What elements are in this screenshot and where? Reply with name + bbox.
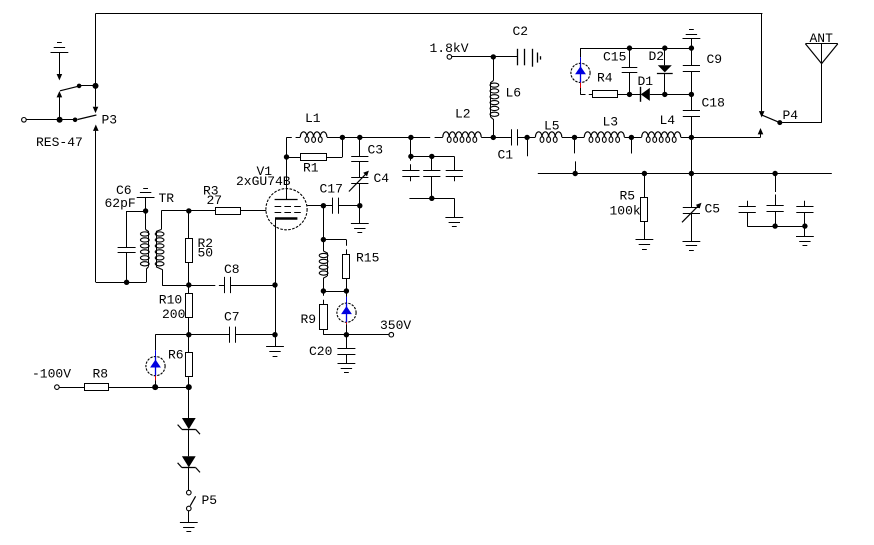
tube V1 anode (286, 157, 288, 200)
switch P4 upper contact arrow (759, 111, 765, 117)
svg-text:ANT: ANT (810, 31, 834, 46)
ground (input relay, inverted) (51, 43, 69, 53)
capacitor output shunt A (747, 201, 749, 207)
wire HV top rail (580, 48, 691, 50)
wire to C2 (493, 56, 517, 58)
inductor screen choke (323, 240, 325, 251)
resistor R8 (85, 384, 109, 391)
resistor R6 (188, 335, 190, 353)
node R4/C15/D1 junction (627, 92, 632, 97)
node P4 pivot (777, 120, 782, 125)
svg-text:C15: C15 (603, 49, 626, 64)
node L3/L4 junction (629, 135, 634, 140)
svg-text:L2: L2 (455, 106, 471, 121)
svg-text:RES-47: RES-47 (36, 135, 83, 150)
capacitor C5 (variable) (691, 174, 693, 208)
wire to R3 (189, 210, 216, 212)
wire secondary bottom rail (162, 285, 189, 287)
svg-text:R8: R8 (93, 366, 109, 381)
node C6 bottom (124, 280, 129, 285)
node R10 bottom (186, 332, 191, 337)
wire mid-caps top rail (411, 156, 454, 158)
svg-text:P4: P4 (783, 108, 799, 123)
terminal 350V (389, 332, 394, 337)
meter PA1 (grid current) (155, 335, 157, 351)
node P3 pole-1 pivot (77, 84, 82, 89)
svg-text:P5: P5 (202, 493, 218, 508)
capacitor C8 (224, 277, 226, 293)
inductor L2 (443, 132, 481, 137)
node right caps tap (772, 171, 777, 176)
capacitor C7 (229, 327, 231, 343)
node mid caps tap (408, 135, 413, 140)
capacitor output shunt B (775, 195, 777, 206)
wire output to P4 (691, 137, 760, 139)
capacitor output shunt C (804, 201, 806, 207)
node TR primary top (143, 208, 148, 213)
wire meter to R4 (580, 94, 585, 96)
transformer TR primary (145, 211, 147, 230)
terminal RF input (22, 118, 27, 123)
wire bypass loop left (95, 14, 97, 86)
capacitor mid shunt 1 (410, 156, 412, 160)
svg-text:2xGU74B: 2xGU74B (236, 174, 291, 189)
ground (R5) (644, 222, 646, 240)
node L1/R1 right (340, 135, 345, 140)
svg-text:TR: TR (159, 191, 175, 206)
capacitor C20 (346, 335, 348, 349)
ground (above TR, inverted) (137, 189, 155, 198)
inductor L6 (HV choke) (493, 57, 495, 81)
resistor R10 (188, 285, 190, 293)
resistor R4 (593, 91, 618, 98)
node mid-caps left (408, 154, 413, 159)
wire bias to zeners (188, 387, 190, 418)
capacitor C9 (691, 48, 693, 65)
svg-text:R5: R5 (620, 188, 636, 203)
wire to 350V terminal (346, 334, 389, 336)
wire screen down (323, 206, 325, 240)
wire to C7 (189, 334, 229, 336)
node L4 output junction (689, 135, 694, 140)
wire L4 junction down through bus (691, 137, 693, 173)
svg-text:C20: C20 (309, 344, 332, 359)
inductor L4 (631, 137, 641, 139)
svg-text:R15: R15 (356, 250, 379, 265)
node choke top (321, 237, 326, 242)
zener diode VD1 (182, 418, 196, 429)
resistor R5 (644, 174, 646, 198)
node P3 pole-2 pivot (73, 118, 78, 123)
node mid-caps bottom tap (429, 196, 434, 201)
transformer TR secondary (161, 211, 163, 230)
node anode junction (284, 154, 289, 159)
inductor L1 (287, 137, 292, 139)
wire ground to contact (59, 52, 61, 74)
ground (C5) (691, 213, 693, 241)
node C1/L5 junction (524, 135, 529, 140)
wire pivot to bypass line (79, 85, 95, 87)
wire ground-side bus (538, 173, 832, 175)
capacitor C3 (359, 137, 361, 156)
node choke bottom (321, 288, 326, 293)
node meter bottom (152, 384, 158, 390)
wire C8 to cathode (231, 285, 275, 287)
wire cathode lead (275, 219, 277, 285)
capacitor mid shunt 2 (431, 156, 433, 170)
wire bypass down to pole-2 contact (95, 86, 97, 107)
wire meter branch (155, 334, 189, 336)
svg-text:D2: D2 (649, 49, 665, 64)
ground (C20) (346, 354, 348, 364)
wire rail to C8 (189, 285, 216, 287)
svg-text:R4: R4 (597, 70, 613, 85)
wire 1.8kV to C2 node (452, 56, 494, 58)
wire screen to C17 (307, 205, 323, 207)
wire bypass loop right down to P4 (761, 14, 763, 112)
switch P4 lower contact arrow (758, 128, 764, 134)
switch P5 lower contact (187, 506, 192, 511)
svg-text:C1: C1 (498, 147, 514, 162)
capacitor C4 (variable) (359, 162, 361, 178)
wire stub to bus (575, 161, 577, 173)
terminal 1.8kV (447, 55, 452, 60)
wire terminal to R8 (59, 387, 84, 389)
svg-text:1.8kV: 1.8kV (430, 41, 469, 56)
meter PA3 (anode current) (580, 48, 582, 57)
node C7 ground junction (272, 332, 277, 337)
wire rail to L2 (411, 137, 430, 139)
node R15 bottom (344, 288, 349, 293)
wire stub below L5 junction (574, 137, 576, 153)
svg-text:200: 200 (162, 307, 185, 322)
node C15 top (627, 45, 632, 50)
wire ground stem to TR node (145, 197, 147, 211)
wire P4 to antenna (782, 122, 822, 124)
node R2 bottom (186, 282, 191, 287)
node C4 bottom (357, 203, 362, 208)
wire secondary top to R2 node (161, 210, 189, 212)
node C9 top (689, 45, 694, 50)
wire to D1 (617, 94, 630, 96)
capacitor mid shunt 3 (454, 156, 456, 170)
wire between zeners (188, 429, 190, 456)
node D2 top (662, 45, 667, 50)
wire mid-caps stub (410, 137, 412, 156)
diode D2 (664, 48, 666, 65)
ground (above C9, inverted) (683, 30, 701, 39)
svg-text:R10: R10 (159, 292, 182, 307)
svg-text:L4: L4 (660, 113, 676, 128)
tube V1 control grid (275, 212, 301, 214)
wire D-junction to C9 line (665, 94, 692, 96)
wire zener to switch P5 (188, 468, 190, 491)
node D1/D2 junction (662, 92, 667, 97)
capacitor C1 (493, 137, 511, 139)
svg-text:C7: C7 (224, 310, 240, 325)
switch P5 blade (190, 496, 195, 506)
resistor R2 (188, 211, 190, 239)
svg-text:R9: R9 (301, 312, 317, 327)
svg-text:50: 50 (198, 246, 214, 261)
svg-text:R6: R6 (168, 347, 184, 362)
node C9 bottom / C18 top (689, 92, 694, 97)
wire choke-R15 join (323, 291, 346, 293)
node R5 tap (642, 171, 647, 176)
capacitor C2 (feedthrough) (517, 49, 519, 66)
wire tank rail (342, 137, 411, 139)
tube V1 cathode (275, 217, 297, 220)
switch P5 upper contact (187, 490, 192, 495)
zener diode VD2 (182, 456, 196, 467)
svg-text:L5: L5 (544, 118, 560, 133)
capacitor C17 (323, 205, 332, 207)
wire contact to input rail (59, 97, 61, 120)
wire P3 to TR bottom (95, 131, 97, 283)
meter PA2 (screen current) (346, 291, 348, 297)
svg-text:62pF: 62pF (105, 196, 136, 211)
node C3 tap (357, 135, 362, 140)
ground (C4) (359, 206, 361, 224)
node caps bottom B (772, 223, 777, 228)
wire node to C6 (127, 211, 146, 213)
node HV junction (491, 54, 496, 59)
wire stub below C1 junction (527, 137, 529, 156)
node bus stub tap (573, 171, 578, 176)
relay P3 pole-2 upper contact arrow (93, 107, 99, 113)
tube V1 screen grid (275, 206, 301, 208)
node input rail junction (57, 117, 63, 123)
relay P3 pole-2 lower contact arrow (93, 125, 99, 131)
node L6 bottom (491, 135, 496, 140)
svg-text:P3: P3 (102, 113, 118, 128)
node bypass junction (93, 83, 99, 89)
resistor R9 (323, 291, 325, 296)
svg-text:D1: D1 (638, 74, 654, 89)
node bias junction (186, 384, 192, 390)
relay P3 contact arrow (to amp input) (57, 91, 63, 97)
capacitor C18 (691, 94, 693, 110)
svg-text:C3: C3 (368, 142, 384, 157)
svg-text:L3: L3 (603, 114, 619, 129)
svg-text:C9: C9 (707, 52, 723, 67)
wire anode riser (286, 137, 288, 157)
wire stub below L3 junction (631, 137, 633, 153)
inductor L5 (527, 137, 535, 139)
node screen junction (321, 203, 326, 208)
resistor R3 (216, 208, 241, 215)
resistor R15 (346, 240, 348, 246)
ground (mid caps) (454, 198, 456, 217)
svg-text:C5: C5 (705, 201, 721, 216)
diode D1 (630, 94, 641, 96)
relay P3 pole-2 blade (78, 115, 97, 120)
wire R3 to grid (240, 210, 266, 212)
tube V1 envelope (266, 189, 307, 230)
capacitor C6 (126, 211, 128, 248)
node grid rail R2 tap (186, 208, 191, 213)
svg-text:27: 27 (207, 193, 223, 208)
ground (right caps) (804, 226, 806, 236)
svg-text:C8: C8 (224, 262, 240, 277)
inductor L3 (575, 137, 585, 139)
node L5/L3 junction (572, 135, 577, 140)
node caps bottom C (802, 223, 807, 228)
svg-text:-100V: -100V (32, 366, 71, 381)
svg-text:L6: L6 (506, 85, 522, 100)
svg-text:C18: C18 (702, 95, 725, 110)
wire input rail (26, 119, 75, 121)
terminal -100V (55, 385, 60, 390)
svg-text:C2: C2 (513, 24, 529, 39)
wire cathode vertical (275, 285, 277, 335)
wire mid-caps bottom rail (409, 198, 454, 200)
node cathode junction (272, 282, 277, 287)
wire bypass loop top (96, 13, 763, 15)
ground (cathode) (275, 335, 277, 347)
resistor R1 (287, 157, 301, 159)
relay P3 pole-1 blade (60, 86, 79, 91)
svg-text:350V: 350V (380, 318, 411, 333)
wire ground to rail (691, 39, 693, 48)
wire right caps bottom rail (747, 226, 805, 228)
wire to R15 (323, 239, 346, 241)
antenna ANT (805, 43, 837, 45)
node 350V junction (344, 332, 349, 337)
svg-text:C4: C4 (374, 171, 390, 186)
svg-text:100k: 100k (610, 204, 641, 219)
wire stub to right caps (775, 174, 777, 193)
svg-text:R1: R1 (303, 160, 319, 175)
ground (P5) (188, 511, 190, 523)
node mid-caps center tap (429, 154, 434, 159)
capacitor C15 (629, 48, 631, 68)
relay P3 contact arrow (from ground) (57, 74, 63, 80)
wire R8 to bias node (108, 387, 189, 389)
svg-text:L1: L1 (305, 111, 321, 126)
wire C7 to ground node (235, 334, 275, 336)
switch P4 blade (762, 115, 777, 122)
node C5 tap (689, 171, 694, 176)
svg-text:C17: C17 (320, 181, 343, 196)
